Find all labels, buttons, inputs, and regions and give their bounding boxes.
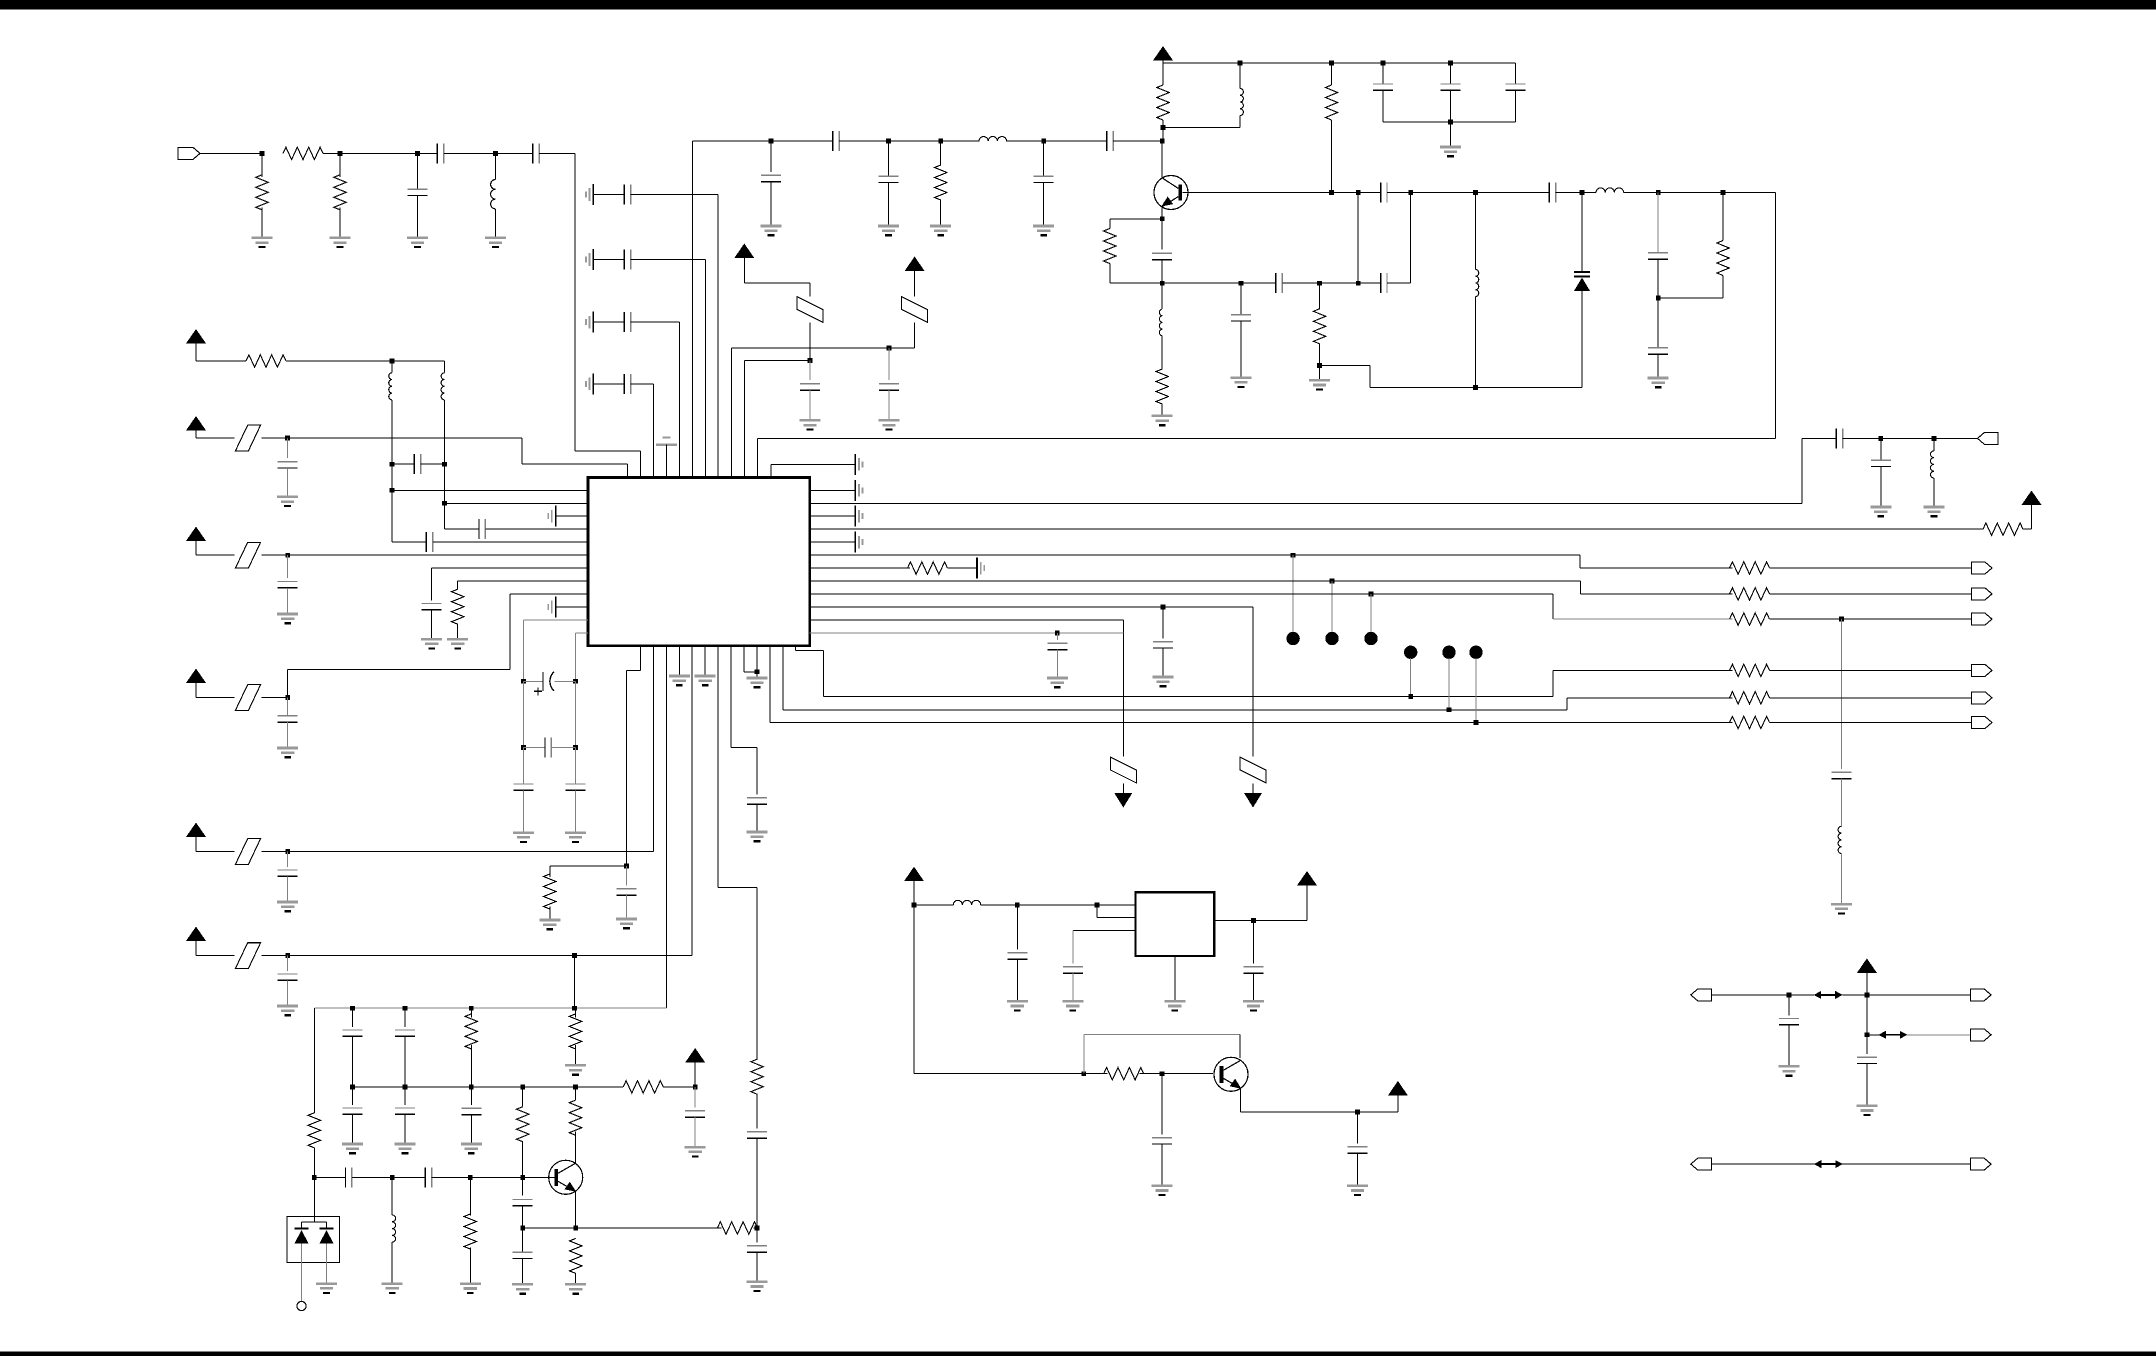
bidirectional arrow: [1814, 991, 1843, 999]
power VCC arrow: [186, 527, 206, 542]
connector J6 (output): [1972, 664, 1993, 676]
wire: [195, 941, 197, 956]
bidirectional arrow: [1814, 1160, 1843, 1168]
ground: [878, 226, 899, 235]
capacitor C39 (decoupling): [278, 974, 298, 980]
wire: [756, 748, 758, 795]
wire: [523, 680, 543, 682]
junction: [1095, 903, 1100, 908]
junction: [1580, 190, 1585, 195]
ferrite bead FB5: [235, 685, 260, 711]
ground (sideways): [855, 506, 862, 527]
junction: [1656, 190, 1661, 195]
ground (sideways): [586, 249, 593, 270]
junction: [390, 488, 395, 493]
wire IC top pin: [666, 465, 668, 478]
ground (sideways): [855, 480, 862, 501]
wire: [1006, 140, 1043, 142]
wire: [470, 1008, 472, 1017]
wire: [1320, 365, 1370, 367]
bottom border bar: [0, 1352, 2156, 1356]
wire: [1880, 467, 1882, 508]
junction: [1160, 139, 1165, 144]
wire (bus): [810, 632, 1124, 634]
wire: [627, 670, 641, 672]
resistor R2 (shunt): [256, 175, 268, 210]
junction: [1473, 385, 1478, 390]
capacitor C60 (decoupling): [685, 1111, 705, 1117]
wire U2 output: [1214, 920, 1307, 922]
wire: [1084, 1073, 1108, 1075]
connector J12: [1691, 1158, 1712, 1170]
wire: [627, 464, 629, 477]
wire: [1933, 438, 1935, 450]
wire: [522, 1206, 524, 1228]
wire: [888, 140, 940, 142]
ground (sideways): [548, 597, 555, 618]
diode D2b: [320, 1229, 334, 1244]
resistor R14 (pull-up): [1983, 523, 2023, 535]
wire: [287, 588, 289, 614]
wire: [391, 400, 393, 464]
wire IC bottom pin: [743, 646, 745, 672]
capacitor C29 (series): [426, 532, 432, 552]
wire IC pin: [639, 451, 641, 478]
junction: [1721, 190, 1726, 195]
wire: [1122, 620, 1124, 757]
wire IC bottom pin: [769, 646, 771, 723]
junction: [285, 953, 290, 958]
wire: [1358, 192, 1380, 194]
ground: [1243, 1001, 1264, 1010]
wire: [522, 1142, 524, 1178]
wire: [1161, 404, 1163, 416]
wire: [770, 463, 772, 466]
wire: [1711, 1163, 1815, 1165]
wire: [1016, 905, 1018, 950]
ground (sideways): [977, 558, 984, 579]
wire IC pin: [810, 541, 856, 543]
capacitor C10: [1440, 84, 1460, 90]
ground: [1309, 380, 1330, 389]
wire: [457, 581, 459, 589]
wire: [1083, 1035, 1085, 1074]
wire: [444, 400, 446, 464]
wire: [261, 153, 263, 177]
junction: [1041, 139, 1046, 144]
top border bar: [0, 0, 2156, 10]
junction: [1408, 694, 1413, 699]
wire: [1770, 567, 1972, 569]
junction: [1329, 190, 1334, 195]
wire: [1358, 282, 1380, 284]
power VCC arrow: [2022, 491, 2042, 506]
connector J5 (output): [1972, 613, 1993, 625]
ground: [277, 748, 298, 757]
wire: [1370, 387, 1582, 389]
capacitor C21 (decoupling): [624, 250, 630, 270]
wire: [631, 259, 706, 261]
junction: [887, 346, 892, 351]
wire: [1072, 930, 1074, 963]
wire IC bottom pin: [704, 646, 706, 676]
wire (bus): [810, 554, 1580, 556]
junction: [521, 745, 526, 750]
wire IC top pin: [627, 465, 629, 478]
junction: [624, 864, 629, 869]
wire: [1449, 63, 1451, 84]
ground: [565, 1284, 586, 1293]
wire: [1306, 886, 1308, 921]
ground: [669, 676, 690, 685]
wire: [1073, 929, 1136, 931]
wire: [575, 1273, 577, 1284]
wire: [1382, 63, 1384, 84]
wire: [1331, 581, 1333, 632]
junction: [1317, 281, 1322, 286]
wire: [593, 383, 624, 385]
wire: [470, 1176, 556, 1178]
wire: [1843, 437, 1978, 439]
wire: [1449, 122, 1451, 147]
connector J13: [1971, 1158, 1992, 1170]
wire: [1553, 669, 1733, 671]
junction: [285, 436, 290, 441]
wire: [196, 437, 235, 439]
ground: [1347, 1186, 1368, 1195]
node (test point): [1404, 646, 1417, 659]
junction: [808, 358, 813, 363]
wire: [286, 438, 288, 458]
wire: [522, 748, 524, 785]
wire: [522, 1259, 524, 1285]
wire: [1282, 282, 1319, 284]
connector J9: [1691, 989, 1712, 1001]
wire IC bottom pin: [640, 646, 642, 671]
junction: [1448, 120, 1453, 125]
wire: [313, 1148, 315, 1217]
wire: [1567, 697, 1733, 699]
wire: [495, 209, 497, 238]
capacitor C8 (series): [1107, 131, 1113, 151]
wire: [1841, 619, 1843, 769]
junction: [1330, 579, 1335, 584]
wire: [287, 698, 289, 716]
ground: [539, 920, 560, 929]
wire: [496, 152, 533, 154]
wire: [626, 866, 628, 886]
wire (bus to IC): [679, 322, 681, 466]
wire IC top pin: [730, 465, 732, 478]
wire (bus): [810, 580, 1581, 582]
resistor R15 (series): [1730, 562, 1770, 574]
capacitor C16 (series): [1381, 183, 1387, 203]
wire: [1161, 336, 1163, 369]
wire IC bottom pin: [730, 646, 732, 748]
wire: [1552, 594, 1554, 619]
resistor R29: [570, 1238, 582, 1273]
resistor R19 (series): [1730, 664, 1770, 676]
junction: [912, 903, 917, 908]
wire: [549, 866, 551, 877]
junction: [521, 679, 526, 684]
wire: [1841, 854, 1843, 905]
ground: [695, 676, 716, 685]
voltage regulator U2: [1135, 892, 1214, 956]
wire: [730, 348, 732, 466]
junction: [1355, 1110, 1360, 1115]
wire: [1397, 1096, 1399, 1113]
wire: [1370, 594, 1372, 632]
wire: [888, 348, 890, 380]
wire: [940, 200, 942, 226]
junction: [469, 1006, 474, 1011]
wire IC top pin: [743, 465, 745, 478]
wire: [262, 437, 288, 439]
junction: [573, 745, 578, 750]
wire: [1162, 63, 1164, 85]
junction: [755, 1226, 760, 1231]
ground (sideways): [586, 184, 593, 205]
junction: [1160, 1071, 1165, 1076]
capacitor C57: [1347, 1147, 1367, 1153]
junction: [938, 139, 943, 144]
wire: [940, 141, 942, 165]
wire: [1357, 193, 1359, 284]
ground: [799, 420, 820, 429]
ferrite bead FB1: [902, 297, 928, 323]
resistor R16: [908, 562, 948, 574]
wire: [1411, 192, 1476, 194]
wire: [941, 140, 980, 142]
wire J1 to R1 node: [200, 152, 262, 154]
wire IC bottom pin: [717, 646, 719, 888]
junction: [390, 359, 395, 364]
wire: [352, 1008, 354, 1027]
capacitor C40 (series): [747, 1132, 767, 1138]
junction: [1015, 903, 1020, 908]
wire VCC rail: [1163, 62, 1515, 64]
capacitor C38 (decoupling): [278, 870, 298, 876]
wire IC pin: [576, 632, 588, 634]
wire: [1356, 1112, 1358, 1144]
wire: [352, 1114, 354, 1144]
inductor L12: [1159, 309, 1162, 336]
capacitor C12 (emitter bypass): [1152, 253, 1172, 259]
junction: [350, 1006, 355, 1011]
wire Q4 emitter: [1240, 1089, 1242, 1113]
wire: [1122, 784, 1124, 794]
transistor Q3: [549, 1160, 583, 1194]
node (test point): [1325, 632, 1338, 645]
resistor R6 (collector): [1325, 85, 1337, 120]
wire: [196, 554, 235, 556]
wire: [731, 347, 914, 349]
wire: [1097, 917, 1135, 919]
resistor R17 (series): [1730, 588, 1770, 600]
capacitor C4 (decoupling): [761, 175, 781, 181]
wire: [432, 1176, 471, 1178]
wire: [1109, 219, 1111, 229]
junction: [572, 953, 577, 958]
wire: [392, 463, 414, 465]
ground: [1047, 678, 1068, 687]
wire: [796, 649, 824, 651]
wire: [404, 1114, 406, 1144]
wire: [1056, 633, 1058, 640]
wire: [1711, 994, 1814, 996]
junction: [1317, 363, 1322, 368]
wire IC top pin: [757, 465, 759, 478]
power VCC arrow: [734, 244, 754, 259]
wire IC pin: [445, 502, 589, 504]
power VCC arrow: [186, 416, 206, 431]
wire: [809, 390, 811, 420]
wire IC pin: [523, 619, 588, 621]
wire: [1475, 658, 1477, 723]
wire: [1043, 183, 1045, 227]
wire: [593, 259, 624, 261]
wire: [913, 881, 915, 905]
wire Q3 emitter: [575, 1192, 577, 1229]
wire: [1866, 995, 1868, 1054]
wire: [1907, 1034, 1971, 1036]
junction: [403, 1006, 408, 1011]
junction: [1160, 281, 1165, 286]
wire: [287, 555, 289, 578]
junction: [260, 151, 265, 156]
wire: [1161, 1074, 1163, 1135]
wire: [1867, 1034, 1880, 1036]
wire: [1841, 1163, 1970, 1165]
wire: [1252, 607, 1254, 757]
wire: [352, 1087, 354, 1105]
wire (bus): [810, 606, 1253, 608]
wire: [756, 672, 758, 678]
wire: [809, 283, 811, 297]
resistor R1 (series): [283, 147, 323, 159]
wire: [1770, 669, 1972, 671]
node (test point): [1442, 646, 1455, 659]
wire: [575, 681, 577, 747]
capacitor C45: [1832, 772, 1852, 778]
wire: [1775, 193, 1777, 439]
ground: [1152, 1186, 1173, 1195]
ground: [252, 238, 273, 247]
capacitor C7 (shunt): [1034, 176, 1054, 182]
wire: [469, 1177, 471, 1215]
wire: [287, 670, 289, 698]
wire: [353, 1086, 624, 1088]
ground: [1164, 1001, 1185, 1010]
resistor R26: [308, 1113, 320, 1148]
wire (bus): [783, 709, 1567, 711]
wire: [313, 1217, 315, 1222]
capacitor C31: [422, 604, 442, 610]
power VCC arrow: [1857, 958, 1877, 973]
wire: [391, 361, 393, 373]
wire: [1161, 1144, 1163, 1186]
capacitor C37: [617, 889, 637, 895]
resistor R12: [544, 874, 556, 909]
power VCC arrow: [1153, 46, 1173, 61]
wire: [523, 1227, 722, 1229]
ground: [382, 1284, 403, 1293]
inductor L8 (shunt): [1930, 451, 1933, 478]
junction: [886, 139, 891, 144]
wire: [575, 1045, 577, 1065]
wire: [1475, 192, 1549, 194]
wire: [1016, 959, 1018, 1001]
wire: [444, 152, 496, 154]
wire: [418, 152, 438, 154]
wire: [444, 361, 446, 373]
ferrite bead FB9: [1110, 757, 1136, 783]
wire: [693, 140, 833, 142]
wire IC bottom pin: [756, 646, 758, 672]
capacitor C5 (series): [833, 131, 839, 151]
wire Q1 emitter: [1161, 207, 1163, 219]
wire: [666, 445, 668, 466]
connector J8 (output): [1972, 717, 1993, 729]
capacitor C34 (series): [545, 738, 551, 758]
capacitor C2 (series): [437, 143, 443, 163]
wire: [1474, 193, 1476, 270]
wire: [555, 680, 576, 682]
power VCC arrow: [1388, 1081, 1408, 1096]
wire (bus): [810, 528, 1983, 530]
wire: [1084, 1034, 1240, 1036]
wire: [1580, 567, 1733, 569]
wire: [1556, 192, 1582, 194]
ferrite bead FB4: [235, 542, 260, 568]
wire: [1553, 618, 1733, 620]
junction: [1081, 1071, 1086, 1076]
resistor R32: [1156, 369, 1168, 404]
wire IC pin: [510, 593, 588, 595]
junction: [755, 669, 760, 674]
dual diode D2 (ESD): [287, 1217, 340, 1263]
wire IC pin: [433, 541, 588, 543]
junction: [469, 1085, 474, 1090]
wire IC bottom pin: [652, 646, 654, 852]
junction: [1356, 190, 1361, 195]
resistor R4 (shunt): [935, 165, 947, 200]
wire IC top pin: [770, 465, 772, 478]
wire: [1382, 90, 1384, 122]
wire: [1162, 607, 1164, 638]
ground: [1007, 1001, 1028, 1010]
junction: [1161, 605, 1166, 610]
ground: [1033, 226, 1054, 235]
ground: [685, 1147, 706, 1156]
wire: [694, 1063, 696, 1087]
wire: [1056, 650, 1058, 678]
junction: [1161, 125, 1166, 130]
wire: [1449, 90, 1451, 122]
wire: [1162, 1073, 1213, 1075]
ground: [512, 1284, 533, 1293]
wire: [1410, 193, 1412, 284]
wire: [1801, 438, 1803, 503]
wire: [731, 747, 757, 749]
ground: [277, 902, 298, 911]
wire IC pin: [262, 554, 589, 556]
capacitor C27 (series): [479, 519, 485, 539]
connector pin (circle): [297, 1301, 306, 1310]
capacitor C32 (decoupling): [278, 716, 298, 722]
wire: [575, 748, 577, 785]
